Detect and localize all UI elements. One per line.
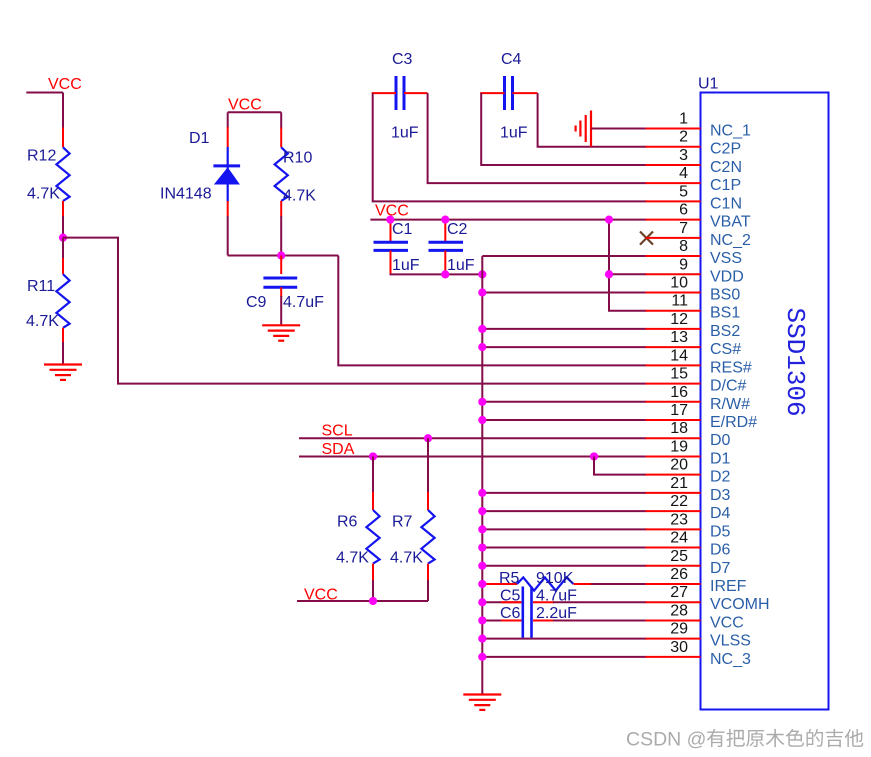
node R6 bottom: [369, 597, 377, 605]
resistor R10: [280, 128, 282, 148]
node bus pin 13: [478, 343, 486, 351]
svg-text:BS0: BS0: [710, 286, 740, 303]
svg-text:BS1: BS1: [710, 305, 740, 322]
svg-text:15: 15: [670, 366, 688, 383]
svg-text:D/C#: D/C#: [710, 378, 747, 395]
svg-text:R7: R7: [392, 514, 413, 531]
node bus pin 29: [478, 635, 486, 643]
svg-text:16: 16: [670, 384, 688, 401]
node divider junction: [59, 234, 67, 242]
svg-text:SSD1306: SSD1306: [780, 307, 810, 416]
svg-text:4.7K: 4.7K: [26, 313, 59, 330]
svg-text:1uF: 1uF: [447, 257, 475, 274]
pin 21 D3: [646, 492, 701, 494]
wire reset junction row: [228, 255, 339, 257]
no-connect X (pin 7 NC_2): [640, 232, 653, 245]
wire C1 C2 bottoms to ground bus: [391, 273, 483, 276]
capacitor C9 4.7uF: [280, 256, 282, 275]
node bus pin 16: [478, 398, 486, 406]
svg-text:23: 23: [670, 511, 688, 528]
node bus pin 10: [478, 288, 486, 296]
node bus pin 22: [478, 507, 486, 515]
pin 10 BS0: [646, 291, 701, 293]
svg-text:D1: D1: [189, 130, 210, 147]
svg-text:C4: C4: [501, 51, 522, 68]
svg-text:29: 29: [670, 621, 688, 638]
node bus pin 27: [478, 598, 486, 606]
svg-text:26: 26: [670, 566, 688, 583]
pin 8 VSS: [646, 255, 701, 257]
svg-text:D6: D6: [710, 542, 731, 559]
pin 7 NC_2: [646, 237, 701, 239]
svg-text:R5: R5: [499, 570, 520, 587]
wire bus to pin 12: [482, 328, 646, 330]
pin 28 VCC: [646, 619, 701, 621]
capacitor C5 4.7uF: [482, 601, 521, 603]
svg-text:20: 20: [670, 457, 688, 474]
node bus pin 17: [478, 416, 486, 424]
svg-text:NC_1: NC_1: [710, 123, 751, 140]
wire SDA branch to pin 20 D2: [594, 456, 647, 474]
resistor R5 910K: [482, 583, 517, 585]
wire bus to pin 13: [482, 346, 646, 348]
svg-text:NC_3: NC_3: [710, 651, 751, 668]
node C1 top: [386, 216, 394, 224]
svg-text:19: 19: [670, 438, 688, 455]
svg-text:4: 4: [679, 165, 688, 182]
svg-text:C6: C6: [500, 605, 521, 622]
svg-text:U1: U1: [698, 76, 719, 93]
pin 20 D2: [646, 474, 701, 476]
wire bus to pin 10: [482, 291, 646, 293]
svg-text:VCC: VCC: [48, 76, 82, 93]
svg-text:D1: D1: [710, 450, 731, 467]
svg-text:30: 30: [670, 639, 688, 656]
wire pullup VCC rail: [297, 600, 428, 602]
svg-text:R10: R10: [283, 150, 312, 167]
pin 6 VBAT: [646, 219, 701, 221]
node bus pin 21: [478, 489, 486, 497]
pin 26 IREF: [646, 583, 701, 585]
svg-text:12: 12: [670, 311, 688, 328]
wire bus to pin 25: [482, 565, 646, 567]
node VDD tap: [605, 270, 613, 278]
ground (bottom of bus): [463, 693, 501, 695]
svg-text:C2N: C2N: [710, 159, 742, 176]
svg-text:11: 11: [671, 293, 688, 310]
svg-text:IREF: IREF: [710, 578, 747, 595]
svg-text:4.7uF: 4.7uF: [283, 294, 324, 311]
svg-text:4.7K: 4.7K: [336, 550, 369, 567]
node bus pin 23: [478, 525, 486, 533]
svg-text:C2: C2: [447, 221, 468, 238]
svg-text:VBAT: VBAT: [710, 214, 751, 231]
wire bus to pin 29: [482, 638, 646, 640]
pin 15 D/C#: [646, 383, 701, 385]
svg-text:C2P: C2P: [710, 141, 741, 158]
svg-text:C9: C9: [246, 294, 267, 311]
node VCC tap: [605, 216, 613, 224]
node bus pin 26: [478, 580, 486, 588]
pin 14 RES#: [646, 364, 701, 366]
svg-text:4.7K: 4.7K: [390, 550, 423, 567]
pin 17 E/RD#: [646, 419, 701, 421]
svg-text:6: 6: [679, 202, 688, 219]
svg-text:22: 22: [670, 493, 688, 510]
wire bus to pin 17: [482, 419, 646, 421]
svg-text:C1P: C1P: [710, 177, 741, 194]
svg-text:3: 3: [679, 147, 688, 164]
wire C9 to ground: [280, 296, 282, 325]
svg-text:1: 1: [679, 111, 688, 128]
svg-text:D7: D7: [710, 560, 731, 577]
svg-text:1uF: 1uF: [391, 125, 419, 142]
wire VCC rail to pin 6 VBAT: [370, 219, 646, 221]
node rail joins bus: [478, 270, 486, 278]
wire VCC to R10: [280, 112, 282, 128]
wire R11 to ground: [62, 342, 64, 365]
pin 4 C1P: [646, 182, 701, 184]
wire bus to pin 23: [482, 528, 646, 530]
diode D1 IN4148: [227, 127, 229, 147]
pin 30 NC_3: [646, 656, 701, 658]
node SDA R6: [369, 452, 377, 460]
svg-text:D2: D2: [710, 469, 731, 486]
svg-text:24: 24: [670, 530, 688, 547]
svg-text:CS#: CS#: [710, 341, 741, 358]
wire R12 to junction: [62, 216, 64, 238]
svg-text:R12: R12: [27, 148, 56, 165]
node bus pin 12: [478, 325, 486, 333]
wire VCC tap to VDD and BS1: [609, 220, 647, 311]
ground (below C9): [262, 324, 300, 326]
svg-text:1uF: 1uF: [392, 257, 420, 274]
wire VCC to D1: [227, 112, 229, 128]
svg-text:VLSS: VLSS: [710, 633, 751, 650]
svg-text:18: 18: [670, 420, 688, 437]
svg-text:RES#: RES#: [710, 359, 752, 376]
wire VCC to R12: [62, 93, 64, 129]
wire bus to pin 16: [482, 401, 646, 403]
wire tap to pin 9 VDD: [609, 273, 647, 275]
node SDA branch: [590, 452, 598, 460]
svg-text:17: 17: [670, 402, 688, 419]
svg-text:R11: R11: [27, 278, 55, 295]
svg-text:7: 7: [679, 220, 688, 237]
wire bus to pin 21: [482, 492, 646, 494]
node reset junction: [277, 251, 285, 259]
capacitor C6 2.2uF: [482, 619, 521, 621]
resistor R12: [62, 128, 64, 148]
svg-text:28: 28: [670, 602, 688, 619]
pin 23 D5: [646, 528, 701, 530]
pin 11 BS1: [646, 310, 701, 312]
resistor R7: [427, 438, 429, 492]
pin 12 BS2: [646, 328, 701, 330]
svg-text:1uF: 1uF: [500, 125, 528, 142]
wire SCL to pin 18 D0: [299, 437, 647, 439]
wire C4 right to pin 2 C2P: [538, 93, 647, 147]
pin 19 D1: [646, 455, 701, 457]
pin 25 D7: [646, 565, 701, 567]
svg-text:2: 2: [679, 129, 688, 146]
node bus pin 25: [478, 562, 486, 570]
wire bus to pin 24: [482, 547, 646, 549]
svg-text:4.7K: 4.7K: [283, 188, 316, 205]
svg-text:VCC: VCC: [710, 614, 744, 631]
svg-text:25: 25: [670, 548, 688, 565]
wire bus elbow to pin 8 VSS: [482, 255, 646, 257]
pin 9 VDD: [646, 273, 701, 275]
pin 13 CS#: [646, 346, 701, 348]
wire SDA to pin 19 D1: [299, 455, 647, 457]
wire reset net to pin 14 RES#: [338, 256, 646, 366]
wire divider junction to pin 15 D/C#: [63, 238, 647, 384]
pin 29 VLSS: [646, 638, 701, 640]
svg-text:SDA: SDA: [322, 441, 355, 458]
svg-text:R/W#: R/W#: [710, 396, 750, 413]
wire bus to pin 30: [482, 656, 646, 658]
wire C4 left to pin 3 C2N: [481, 93, 646, 165]
svg-text:SCL: SCL: [322, 423, 353, 440]
svg-text:8: 8: [679, 238, 688, 255]
svg-text:4.7K: 4.7K: [27, 186, 60, 203]
pin 22 D4: [646, 510, 701, 512]
ground (pin 1 NC_1): [590, 111, 592, 147]
svg-text:C5: C5: [500, 588, 521, 605]
resistor R6: [372, 456, 374, 492]
svg-text:D5: D5: [710, 523, 731, 540]
node C2 top: [441, 216, 449, 224]
svg-text:10: 10: [670, 274, 688, 291]
svg-text:910K: 910K: [536, 570, 574, 587]
wire C3 left to pin 5 C1N: [373, 93, 647, 201]
svg-text:IN4148: IN4148: [160, 186, 212, 203]
pin 16 R/W#: [646, 401, 701, 403]
node C2 bottom: [441, 270, 449, 278]
pin 24 D6: [646, 547, 701, 549]
pin 2 C2P: [646, 146, 701, 148]
wire C3 right to pin 4 C1P: [428, 93, 647, 183]
node SCL R7: [424, 434, 432, 442]
svg-text:NC_2: NC_2: [710, 232, 751, 249]
wire bus to pin 22: [482, 510, 646, 512]
svg-text:E/RD#: E/RD#: [710, 414, 757, 431]
svg-text:VSS: VSS: [710, 250, 742, 267]
pin 18 D0: [646, 437, 701, 439]
svg-text:BS2: BS2: [710, 323, 740, 340]
node bus pin 28: [478, 616, 486, 624]
svg-text:2.2uF: 2.2uF: [536, 605, 577, 622]
pin 27 VCOMH: [646, 601, 701, 603]
svg-text:CSDN @: CSDN @: [626, 729, 706, 751]
svg-text:27: 27: [670, 584, 688, 601]
pin 3 C2N: [646, 164, 701, 166]
svg-text:D0: D0: [710, 432, 731, 449]
svg-text:13: 13: [670, 329, 688, 346]
svg-text:VDD: VDD: [710, 268, 744, 285]
capacitor plates C5 C6: [521, 587, 524, 638]
pin 5 C1N: [646, 200, 701, 202]
svg-text:5: 5: [679, 183, 688, 200]
node bus pin 24: [478, 543, 486, 551]
svg-text:R6: R6: [337, 514, 358, 531]
node bus pin 30: [478, 653, 486, 661]
pin 1 NC_1: [646, 128, 701, 130]
svg-text:4.7uF: 4.7uF: [536, 588, 577, 605]
svg-text:C3: C3: [392, 51, 413, 68]
svg-text:21: 21: [670, 475, 688, 492]
svg-text:14: 14: [670, 347, 688, 364]
wire ground bus vertical: [481, 256, 483, 694]
svg-text:D3: D3: [710, 487, 731, 504]
wire ground to pin 1: [591, 128, 647, 130]
svg-text:D4: D4: [710, 505, 731, 522]
svg-text:9: 9: [679, 256, 688, 273]
svg-text:VCOMH: VCOMH: [710, 596, 770, 613]
op-amp U1 (IC SSD1306 body): [701, 93, 829, 710]
ground (below R11): [44, 363, 82, 365]
svg-text:C1: C1: [392, 221, 413, 238]
svg-text:VCC: VCC: [228, 97, 262, 114]
svg-text:C1N: C1N: [710, 195, 742, 212]
wire R10 to junction: [280, 216, 282, 256]
resistor R11: [62, 238, 64, 259]
wire D1 to junction row: [227, 216, 229, 256]
